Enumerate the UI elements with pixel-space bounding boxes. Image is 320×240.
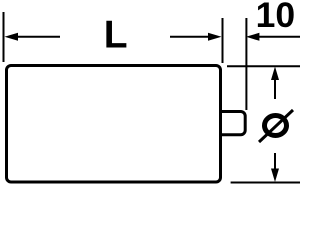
svg-text:10: 10 xyxy=(256,0,296,35)
svg-text:L: L xyxy=(104,14,128,57)
